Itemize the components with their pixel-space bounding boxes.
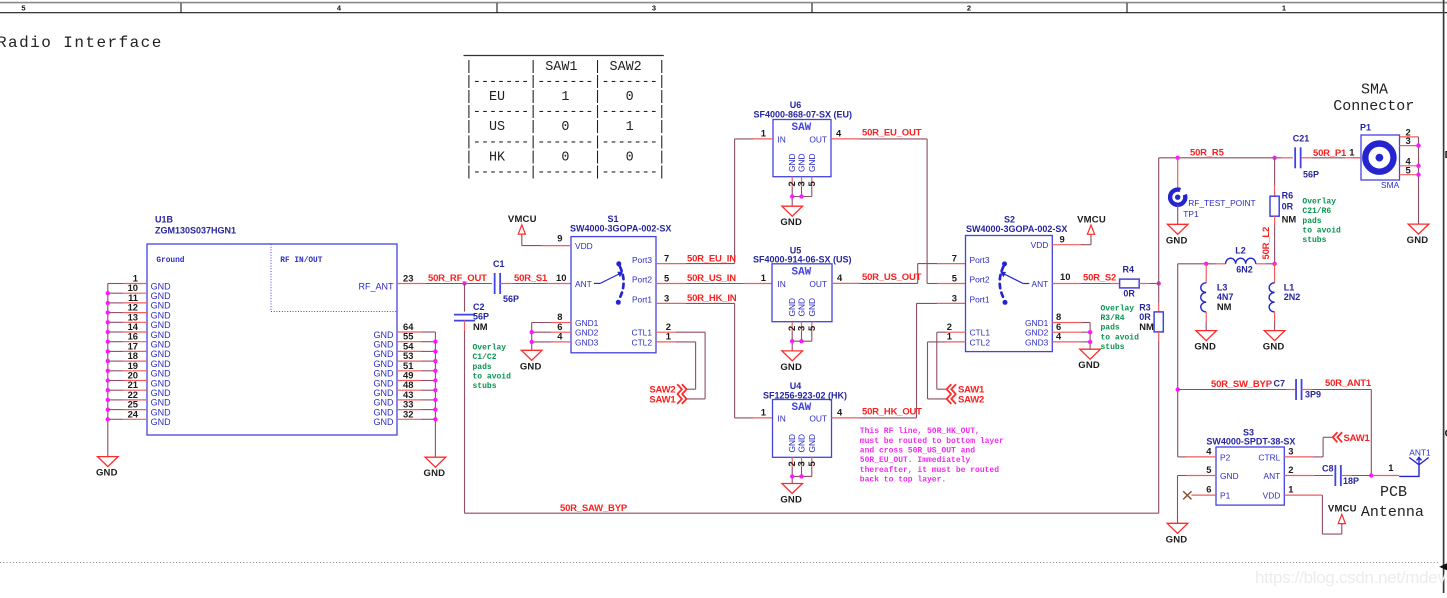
svg-text:GND: GND — [374, 398, 395, 408]
svg-text:50R_US_IN: 50R_US_IN — [687, 273, 736, 284]
svg-text:L2: L2 — [1235, 246, 1246, 256]
svg-text:stubs: stubs — [1302, 236, 1326, 245]
ground symbol (U5) — [780, 351, 802, 373]
svg-text:S2: S2 — [1004, 215, 1015, 225]
svg-text:stubs: stubs — [1101, 343, 1125, 352]
svg-text:C1: C1 — [493, 259, 505, 269]
svg-text:P1: P1 — [1360, 123, 1371, 133]
svg-text:1: 1 — [761, 128, 766, 139]
note overlay C1/C2 — [473, 344, 512, 392]
svg-text:50R_S1: 50R_S1 — [514, 273, 548, 284]
svg-text:GND: GND — [1194, 342, 1216, 353]
svg-text:R3/R4: R3/R4 — [1101, 314, 1125, 323]
svg-text:GND: GND — [780, 495, 802, 506]
svg-text:1: 1 — [666, 331, 671, 342]
S1 switch element — [594, 261, 624, 305]
svg-text:Port2: Port2 — [632, 275, 652, 285]
svg-text:back to top layer.: back to top layer. — [860, 475, 946, 484]
svg-text:GND: GND — [151, 378, 172, 388]
svg-text:SAW1: SAW1 — [1344, 433, 1371, 444]
svg-text:1: 1 — [1282, 4, 1286, 13]
svg-text:SW4000-3GOPA-002-SX: SW4000-3GOPA-002-SX — [570, 223, 671, 233]
svg-text:GND3: GND3 — [1025, 337, 1049, 347]
S2 CTL2 pin 1 wire to SAW2 — [928, 342, 966, 399]
sheet border right edge — [1444, 0, 1447, 593]
svg-text:5: 5 — [806, 181, 817, 186]
ground symbol (U1B left) — [96, 457, 118, 479]
svg-text:IN: IN — [777, 413, 785, 423]
SAW filter U6 SF4000-868-07-SX (EU) — [754, 100, 853, 177]
svg-text:L3: L3 — [1217, 283, 1228, 293]
svg-text:pads: pads — [1101, 324, 1120, 333]
S1 CTL1 pin 2 wire to SAW1 — [656, 321, 705, 399]
svg-text:GND: GND — [151, 310, 172, 320]
svg-text:Port3: Port3 — [632, 255, 652, 265]
S1 VDD pin 9 wire — [522, 233, 571, 246]
svg-text:5: 5 — [1206, 464, 1211, 475]
svg-text:VMCU: VMCU — [1077, 214, 1106, 225]
svg-text:6N2: 6N2 — [1236, 264, 1253, 274]
svg-text:U1B: U1B — [155, 215, 174, 225]
svg-text:GND: GND — [1263, 342, 1285, 353]
svg-text:ANT: ANT — [1032, 279, 1049, 289]
svg-text:GND2: GND2 — [1025, 328, 1049, 338]
capacitor C1 56P — [493, 259, 519, 304]
resistor R4 0R — [1120, 264, 1159, 298]
svg-text:GND: GND — [807, 153, 817, 172]
svg-text:IN: IN — [777, 279, 785, 289]
svg-text:SMA: SMA — [1381, 180, 1400, 190]
svg-text:4: 4 — [1206, 445, 1212, 456]
svg-text:|-------|-------|-------|: |-------|-------|-------| — [465, 135, 666, 150]
svg-text:GND: GND — [780, 362, 802, 373]
svg-text:|-------|-------|-------|: |-------|-------|-------| — [465, 75, 666, 90]
off-page connector SAW1 (S3 side) — [1333, 432, 1371, 444]
svg-text:R6: R6 — [1282, 191, 1294, 201]
svg-text:50R_L2: 50R_L2 — [1261, 227, 1272, 260]
svg-text:R3: R3 — [1139, 303, 1151, 313]
svg-text:3P9: 3P9 — [1305, 390, 1321, 400]
svg-text:PCB: PCB — [1380, 484, 1407, 501]
ground symbol (L1) — [1263, 331, 1285, 353]
ground symbol (P1) — [1407, 224, 1429, 246]
svg-text:This RF line, 50R_HK_OUT,: This RF line, 50R_HK_OUT, — [860, 427, 980, 436]
capacitor C8 18P — [1322, 464, 1371, 486]
ground symbol (S3) — [1166, 523, 1188, 545]
svg-text:50R_SW_BYP: 50R_SW_BYP — [1211, 379, 1273, 390]
svg-text:|-------|-------|-------|: |-------|-------|-------| — [465, 165, 666, 180]
svg-text:OUT: OUT — [809, 413, 827, 423]
svg-text:24: 24 — [128, 408, 139, 419]
svg-text:SAW: SAW — [791, 402, 811, 414]
svg-text:Overlay: Overlay — [1101, 304, 1135, 313]
note overlay R3/R4 — [1101, 304, 1140, 352]
svg-text:50R_P1: 50R_P1 — [1313, 148, 1347, 159]
svg-text:Overlay: Overlay — [473, 344, 507, 353]
svg-text:CTRL: CTRL — [1258, 452, 1280, 462]
svg-text:GND2: GND2 — [575, 328, 599, 338]
svg-text:GND: GND — [374, 388, 395, 398]
svg-text:SF1256-923-02 (HK): SF1256-923-02 (HK) — [763, 390, 847, 400]
svg-text:must be routed to bottom layer: must be routed to bottom layer — [860, 437, 1004, 446]
svg-text:9: 9 — [1060, 234, 1065, 245]
svg-text:50R_HK_OUT: 50R_HK_OUT — [862, 407, 922, 418]
svg-text:C8: C8 — [1322, 464, 1334, 474]
S2 CTL1 pin 2 wire to SAW1 — [937, 332, 966, 389]
U6 GND pins 2/3/5 — [786, 177, 817, 207]
svg-text:Port3: Port3 — [970, 255, 990, 265]
wire 50R_SAW_BYP — [465, 503, 1159, 514]
IC U1B ZGM130S037HGN1 body — [147, 215, 397, 436]
wire 50R_ANT1 down — [1370, 390, 1372, 476]
svg-text:and cross 50R_US_OUT and: and cross 50R_US_OUT and — [860, 447, 975, 456]
off-page connector SAW1 (S2 side) — [947, 384, 985, 395]
svg-text:GND3: GND3 — [575, 337, 599, 347]
S2 GND pins 8/6/4 wires — [1052, 311, 1092, 349]
svg-text:5: 5 — [664, 273, 669, 284]
power symbol VMCU (S2) — [1077, 214, 1106, 234]
capacitor C21 56P — [1293, 134, 1361, 180]
svg-text:Port2: Port2 — [970, 275, 990, 285]
svg-text:6: 6 — [1206, 484, 1211, 495]
S1 CTL2 pin 1 wire to SAW2 — [656, 331, 696, 390]
svg-text:GND: GND — [374, 407, 395, 417]
SAW filter U5 SF4000-914-06-SX (US) — [753, 246, 852, 322]
svg-text:VMCU: VMCU — [508, 214, 537, 225]
svg-text:GND: GND — [1166, 235, 1188, 246]
power symbol VMCU (S1) — [508, 214, 537, 234]
svg-text:2: 2 — [1288, 464, 1293, 475]
svg-text:SW4000-SPDT-38-SX: SW4000-SPDT-38-SX — [1206, 437, 1295, 447]
U4 GND pins 2/3/5 — [786, 457, 817, 483]
U6 OUT pin 4 wire (50R_EU_OUT) — [831, 128, 966, 284]
svg-text:ANT: ANT — [575, 279, 592, 289]
S2 VDD pin 9 wire — [1052, 234, 1091, 245]
svg-text:1: 1 — [1388, 462, 1393, 473]
off-page connector SAW2 (S2 side) — [947, 394, 985, 405]
svg-text:56P: 56P — [1303, 170, 1319, 180]
svg-text:to avoid: to avoid — [473, 372, 512, 381]
svg-text:4: 4 — [836, 128, 842, 139]
svg-text:C2: C2 — [473, 302, 485, 312]
svg-text:GND: GND — [374, 369, 395, 379]
svg-text:OUT: OUT — [809, 134, 827, 144]
svg-text:2: 2 — [967, 4, 971, 13]
S3 VDD pin 1 wire to VMCU — [1284, 484, 1342, 534]
svg-text:2N2: 2N2 — [1284, 292, 1301, 302]
svg-text:https://blog.csdn.net/mdevi: https://blog.csdn.net/mdevi — [1255, 568, 1447, 587]
S1 Port3 pin 7 wire (50R_EU_IN) — [656, 139, 735, 264]
page split dotted line — [0, 562, 1438, 564]
svg-text:GND: GND — [374, 378, 395, 388]
svg-text:56P: 56P — [503, 294, 519, 304]
svg-text:3: 3 — [664, 292, 669, 303]
svg-text:NM: NM — [473, 321, 488, 332]
svg-text:GND: GND — [797, 434, 807, 453]
svg-text:GND: GND — [1166, 534, 1188, 545]
svg-text:GND: GND — [151, 388, 172, 398]
test point TP1 RF_TEST_POINT — [1170, 158, 1256, 225]
svg-text:GND: GND — [151, 281, 172, 291]
svg-text:50R_ANT1: 50R_ANT1 — [1325, 378, 1372, 389]
U1B right GND bus wire — [433, 332, 437, 457]
svg-text:CTL2: CTL2 — [632, 337, 653, 347]
svg-text:SF4000-914-06-SX (US): SF4000-914-06-SX (US) — [753, 254, 852, 264]
svg-text:VDD: VDD — [575, 241, 593, 251]
svg-text:3: 3 — [652, 4, 656, 13]
svg-text:Connector: Connector — [1333, 98, 1414, 115]
svg-text:| EU | 1 | 0 |: | EU | 1 | 0 | — [465, 90, 666, 105]
wire to ANT1 — [1371, 462, 1399, 476]
svg-text:GND: GND — [151, 398, 172, 408]
svg-text:50R_EU_OUT. Immediately: 50R_EU_OUT. Immediately — [860, 456, 971, 465]
svg-text:3: 3 — [1288, 445, 1293, 456]
routing note (magenta) — [860, 427, 1004, 484]
svg-text:P2: P2 — [1220, 452, 1231, 462]
svg-text:50R_EU_OUT: 50R_EU_OUT — [862, 127, 922, 138]
svg-text:GND: GND — [374, 359, 395, 369]
svg-text:3: 3 — [952, 292, 957, 303]
svg-text:NM: NM — [1217, 301, 1232, 312]
svg-text:C21: C21 — [1293, 134, 1310, 144]
ground symbol (S2) — [1078, 349, 1100, 371]
svg-text:SMA: SMA — [1361, 82, 1388, 99]
svg-text:50R_S2: 50R_S2 — [1083, 272, 1116, 283]
wire 50R_SW_BYP — [1176, 264, 1287, 457]
connector P1 SMA — [1360, 123, 1400, 191]
off-page connector SAW2 (S1 side) — [649, 384, 686, 395]
svg-text:GND1: GND1 — [575, 318, 599, 328]
page split arrow marker — [1439, 563, 1447, 570]
svg-text:OUT: OUT — [809, 279, 827, 289]
svg-text:CTL1: CTL1 — [632, 328, 653, 338]
svg-text:to avoid: to avoid — [1101, 333, 1140, 342]
svg-text:Ground: Ground — [156, 257, 184, 265]
svg-text:R4: R4 — [1123, 264, 1135, 274]
svg-text:VDD: VDD — [1031, 240, 1049, 250]
resistor R6 0R NM — [1270, 158, 1296, 264]
svg-text:7: 7 — [664, 253, 669, 264]
svg-text:VMCU: VMCU — [1328, 504, 1357, 515]
svg-text:1: 1 — [761, 272, 766, 283]
svg-text:GND: GND — [96, 468, 118, 479]
svg-text:CTL2: CTL2 — [970, 337, 991, 347]
svg-text:GND: GND — [151, 369, 172, 379]
svg-text:|-------|-------|-------|: |-------|-------|-------| — [465, 105, 666, 120]
svg-text:GND: GND — [807, 434, 817, 453]
P1 pin 1 wire — [1349, 147, 1361, 158]
svg-text:SAW: SAW — [791, 122, 811, 134]
wire matching row — [1178, 262, 1277, 266]
S3 CTRL pin 3 wire to SAW1 — [1284, 437, 1332, 457]
U1B right GND pins — [374, 321, 436, 427]
svg-text:9: 9 — [557, 233, 562, 244]
svg-text:4: 4 — [837, 406, 843, 417]
svg-text:Port1: Port1 — [632, 294, 652, 304]
antenna ANT1 — [1399, 447, 1431, 476]
S1 GND pins 8/6/4 wires — [530, 311, 572, 350]
capacitor C7 3P9 — [1273, 379, 1371, 401]
svg-text:50R_R5: 50R_R5 — [1190, 148, 1225, 159]
svg-text:RF_ANT: RF_ANT — [358, 281, 394, 291]
resistor R3 0R NM — [1139, 158, 1163, 513]
node junction ANT1 — [1369, 473, 1373, 477]
svg-text:32: 32 — [403, 408, 413, 419]
svg-text:50R_RF_OUT: 50R_RF_OUT — [428, 273, 487, 284]
svg-text:pads: pads — [473, 363, 492, 372]
svg-text:GND: GND — [151, 291, 172, 301]
wire 50R_R5 — [1159, 148, 1293, 161]
svg-text:GND: GND — [807, 298, 817, 317]
svg-text:VDD: VDD — [1263, 491, 1281, 501]
inductor L2 6N2 — [1226, 246, 1256, 275]
svg-text:GND: GND — [797, 298, 807, 317]
wire C1 to S1 ANT — [500, 283, 571, 285]
svg-text:5: 5 — [21, 4, 25, 13]
RF switch S1 SW4000-3GOPA-002-SX body — [570, 214, 671, 353]
svg-text:ZGM130S037HGN1: ZGM130S037HGN1 — [155, 226, 236, 236]
svg-text:GND: GND — [151, 340, 172, 350]
svg-text:5: 5 — [952, 273, 957, 284]
ground symbol (S1) — [520, 350, 542, 372]
svg-text:thereafter, it must be routed: thereafter, it must be routed — [860, 466, 999, 475]
svg-text:RF IN/OUT: RF IN/OUT — [280, 257, 322, 265]
svg-text:GND: GND — [374, 340, 395, 350]
U1B pin 23 RF_ANT wire — [397, 273, 492, 284]
svg-text:Port1: Port1 — [970, 294, 990, 304]
svg-text:GND: GND — [151, 417, 172, 427]
S3 GND pin 5 wire — [1178, 464, 1217, 523]
svg-text:C21/R6: C21/R6 — [1302, 207, 1331, 216]
S3 P1 pin 6 no-connect — [1183, 484, 1216, 500]
S2 switch element — [1000, 261, 1030, 305]
svg-text:50R_US_OUT: 50R_US_OUT — [862, 272, 922, 283]
ground symbol (TP1) — [1166, 224, 1188, 246]
S2 ANT pin 10 wire (50R_S2) — [1052, 271, 1119, 283]
SAW filter U4 SF1256-923-02 (HK) — [763, 381, 847, 457]
svg-text:GND: GND — [520, 361, 542, 372]
svg-text:RF_TEST_POINT: RF_TEST_POINT — [1188, 198, 1255, 208]
svg-text:GND: GND — [151, 349, 172, 359]
svg-text:GND: GND — [151, 407, 172, 417]
svg-text:Antenna: Antenna — [1361, 504, 1424, 521]
svg-text:GND: GND — [797, 153, 807, 172]
svg-text:5: 5 — [806, 461, 817, 466]
svg-text:C1/C2: C1/C2 — [473, 353, 497, 362]
ground symbol (U6) — [780, 206, 802, 228]
svg-text:10: 10 — [1060, 271, 1070, 282]
svg-text:GND: GND — [151, 320, 172, 330]
S2 pin numbers left — [947, 253, 957, 342]
svg-text:GND: GND — [374, 417, 395, 427]
U1B left GND pins — [108, 273, 171, 428]
RF switch S3 SW4000-SPDT-38-SX body — [1206, 428, 1295, 506]
svg-text:GND1: GND1 — [1025, 318, 1049, 328]
svg-text:GND: GND — [151, 359, 172, 369]
svg-text:P1: P1 — [1220, 491, 1231, 501]
ground symbol (L3) — [1194, 331, 1216, 353]
svg-text:SW4000-3GOPA-002-SX: SW4000-3GOPA-002-SX — [966, 224, 1067, 234]
svg-text:ANT1: ANT1 — [1409, 447, 1431, 457]
P1 shield pins 2/3/4/5 — [1400, 126, 1421, 224]
U5 OUT pin 4 wire (50R_US_OUT) — [832, 264, 966, 284]
svg-text:SAW1: SAW1 — [649, 394, 676, 405]
svg-text:23: 23 — [403, 273, 413, 284]
inductor L3 4N7 NM — [1201, 264, 1234, 331]
S3 ANT pin 2 wire — [1284, 464, 1333, 476]
off-page connector SAW1 (S1 side) — [649, 394, 686, 405]
svg-text:| HK | 0 | 0 |: | HK | 0 | 0 | — [465, 150, 666, 165]
svg-text:GND: GND — [1078, 360, 1100, 371]
svg-text:GND: GND — [151, 301, 172, 311]
svg-text:C7: C7 — [1273, 379, 1285, 389]
svg-text:NM: NM — [1282, 213, 1297, 224]
svg-text:L1: L1 — [1284, 283, 1295, 293]
svg-text:GND: GND — [1220, 471, 1239, 481]
svg-text:Overlay: Overlay — [1302, 198, 1336, 207]
svg-text:7: 7 — [952, 253, 957, 264]
ground symbol (U4) — [780, 484, 802, 506]
svg-text:SAW: SAW — [791, 266, 811, 278]
svg-text:18P: 18P — [1343, 476, 1359, 486]
U6 IN pin 1 wire — [735, 128, 773, 139]
svg-text:50R_HK_IN: 50R_HK_IN — [687, 293, 737, 304]
power symbol VMCU (S3) — [1328, 504, 1357, 524]
svg-text:GND: GND — [424, 468, 446, 479]
node junction at C2 tap — [462, 281, 466, 285]
svg-text:TP1: TP1 — [1183, 209, 1199, 219]
svg-text:50R_EU_IN: 50R_EU_IN — [687, 253, 736, 264]
svg-text:0R: 0R — [1282, 201, 1294, 211]
U5 GND pins 2/3/5 — [786, 322, 817, 351]
svg-text:GND: GND — [151, 330, 172, 340]
svg-text:GND: GND — [374, 330, 395, 340]
svg-text:1: 1 — [761, 406, 766, 417]
S1 Port1 pin 3 wire (50R_HK_IN) — [656, 292, 773, 418]
ground symbol (U1B right) — [424, 457, 446, 479]
svg-text:CTL1: CTL1 — [970, 328, 991, 338]
svg-text:IN: IN — [777, 134, 785, 144]
svg-text:50R_SAW_BYP: 50R_SAW_BYP — [560, 503, 628, 514]
RF switch S2 SW4000-3GOPA-002-SX body — [966, 215, 1068, 352]
svg-text:4: 4 — [837, 272, 843, 283]
svg-text:GND: GND — [374, 349, 395, 359]
svg-text:ANT: ANT — [1264, 471, 1281, 481]
svg-text:stubs: stubs — [473, 382, 497, 391]
sheet border top ruler — [0, 3, 1447, 13]
svg-text:to avoid: to avoid — [1302, 226, 1341, 235]
svg-text:| US | 0 | 1 |: | US | 0 | 1 | — [465, 120, 666, 135]
svg-text:pads: pads — [1302, 217, 1321, 226]
SAW selection truth table — [464, 56, 666, 181]
svg-text:| | SAW1 | SAW2 |: | | SAW1 | SAW2 | — [465, 60, 666, 75]
svg-text:5: 5 — [806, 326, 817, 331]
svg-text:GND: GND — [1407, 235, 1429, 246]
svg-text:Radio Interface: Radio Interface — [0, 34, 163, 52]
capacitor C2 56P NM — [454, 284, 489, 332]
U1B left GND bus wire — [106, 284, 110, 457]
node junction R4/R3/R5 — [1157, 281, 1161, 285]
note overlay C21/R6 — [1302, 198, 1341, 246]
svg-text:10: 10 — [556, 272, 566, 283]
svg-text:GND: GND — [780, 217, 802, 228]
svg-text:1: 1 — [1288, 484, 1293, 495]
S3 P2 pin 4 wire — [1178, 445, 1216, 457]
svg-text:1: 1 — [1349, 147, 1354, 158]
U4 OUT pin 4 wire (50R_HK_OUT) — [832, 303, 966, 418]
svg-text:SF4000-868-07-SX (EU): SF4000-868-07-SX (EU) — [754, 109, 853, 119]
svg-text:0R: 0R — [1123, 289, 1135, 299]
